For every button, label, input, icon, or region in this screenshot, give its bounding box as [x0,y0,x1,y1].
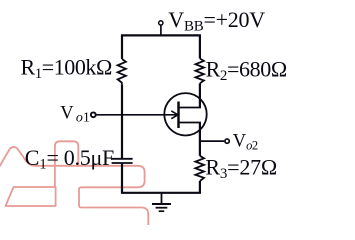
resistor R1 [118,59,126,84]
wire bottom rail [121,192,201,194]
wire gate [96,114,178,116]
svg-text:R1=100kΩ: R1=100kΩ [21,54,112,82]
svg-text:Vo1: Vo1 [60,104,90,126]
svg-text:C1= 0.5μF: C1= 0.5μF [25,145,114,173]
gate arrowhead [171,111,178,119]
svg-text:Vo2: Vo2 [233,131,258,152]
svg-text:VBB=+20V: VBB=+20V [168,7,265,35]
node Vo1 terminal [91,112,96,117]
node VBB terminal [159,21,163,25]
wire left branch upper [121,35,123,59]
wire Vo2 tap [200,140,224,142]
transistor source lead [179,122,201,124]
wire right branch bottom [199,181,201,193]
transistor drain lead [179,107,201,109]
watermark trapezoid stroke [6,187,56,206]
resistor R3 [195,156,204,181]
wire left branch middle [121,84,123,159]
watermark arch stroke [55,141,78,187]
wire drain vertical [199,83,201,107]
svg-text:R3=27Ω: R3=27Ω [205,155,277,183]
capacitor C1 [112,159,133,163]
wire VBB stub [160,25,162,35]
wire source vertical [199,123,201,156]
ground [152,193,171,211]
node Vo2 terminal [225,139,229,143]
svg-text:R2=680Ω: R2=680Ω [206,57,287,85]
resistor R2 [196,59,204,84]
wire right branch top [199,35,201,58]
wire top rail [121,34,201,36]
transistor channel bar [177,102,180,129]
wire left branch lower [121,163,123,193]
transistor Q1 body circle [164,93,206,135]
watermark hump-snake stroke [0,147,148,226]
